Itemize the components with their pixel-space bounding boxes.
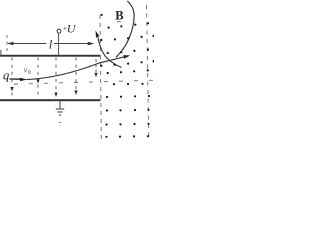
return trajectory arc with exit arrowhead: [98, 37, 122, 67]
E-field line 1 (dashed, downward): [11, 58, 13, 99]
small stray scan mark below ground: [59, 122, 62, 124]
voltage terminal node (+U): [57, 29, 61, 33]
velocity arrow v0 (charge entering): [10, 78, 22, 80]
E-field line 4 (dashed, downward): [75, 58, 77, 90]
dimension extension line (left, dashed): [6, 35, 8, 55]
svg-text:q: q: [3, 69, 9, 83]
svg-text:U: U: [67, 22, 77, 36]
E-field line 3 (dashed, downward): [55, 58, 57, 92]
svg-text:0: 0: [28, 70, 31, 76]
wire from +U terminal to top plate: [58, 33, 60, 55]
circular trajectory arc in B field (right lobe near label B): [116, 1, 134, 57]
magnetic field region left boundary (dashed): [100, 15, 101, 139]
svg-text:B: B: [115, 8, 123, 22]
top plate left end tick: [0, 50, 1, 56]
undeflected path (dashed axis line): [14, 80, 154, 84]
capacitor bottom plate: [0, 99, 101, 101]
E-field line 2 (dashed, downward): [37, 58, 39, 99]
svg-text:l: l: [49, 36, 53, 51]
ground symbol on bottom plate: [56, 101, 64, 115]
E-field line 5 (short, at plate exit): [95, 59, 97, 72]
capacitor top plate: [0, 55, 101, 57]
charge trajectory: parabola in capacitor + straight exit arrow: [27, 57, 126, 80]
dimension line for plate length l (double arrow): [7, 42, 94, 46]
magnetic field region right boundary (dashed): [147, 5, 149, 139]
B-field dots (field out of page): [100, 14, 154, 138]
